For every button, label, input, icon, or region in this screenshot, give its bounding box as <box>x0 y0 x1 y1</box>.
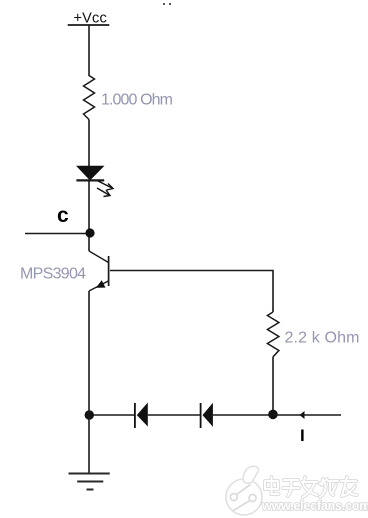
wire Vcc to R1 <box>88 25 90 76</box>
wire R2 to bottom node <box>272 357 274 415</box>
junction dot node c <box>85 228 94 237</box>
wire LED to node c <box>88 180 90 251</box>
stray ink dots top <box>163 3 171 5</box>
LED D1 <box>76 166 113 196</box>
junction dot right <box>268 410 278 420</box>
transistor Q1 MPS3904 <box>89 251 109 291</box>
power rail bar <box>68 24 110 26</box>
watermark logo elecfans <box>226 466 262 515</box>
wire R1 to LED <box>88 120 90 167</box>
svg-text:MPS3904: MPS3904 <box>20 266 86 283</box>
svg-text:1.000 Ohm: 1.000 Ohm <box>101 92 173 109</box>
wire emitter to ground <box>88 291 90 474</box>
wire bottom left segment <box>90 414 135 416</box>
wire diode to right node <box>213 414 273 416</box>
svg-text:c: c <box>57 204 69 227</box>
wire base to R2 <box>110 271 273 313</box>
wire between diodes <box>148 414 201 416</box>
svg-text:I: I <box>300 426 305 445</box>
diode D2 <box>135 403 148 429</box>
resistor R1 <box>84 76 95 120</box>
resistor R2 <box>267 312 279 357</box>
junction dot left <box>85 410 94 419</box>
svg-text:www.elecfans.com: www.elecfans.com <box>261 499 368 513</box>
svg-text:+Vcc: +Vcc <box>74 11 107 27</box>
svg-text:2.2 k Ohm: 2.2 k Ohm <box>285 330 360 347</box>
watermark text 电子发烧友 <box>265 477 357 497</box>
diode D3 <box>201 403 213 428</box>
wire node c horizontal <box>25 233 90 235</box>
wire right with current arrow <box>273 411 341 419</box>
ground <box>69 474 110 490</box>
